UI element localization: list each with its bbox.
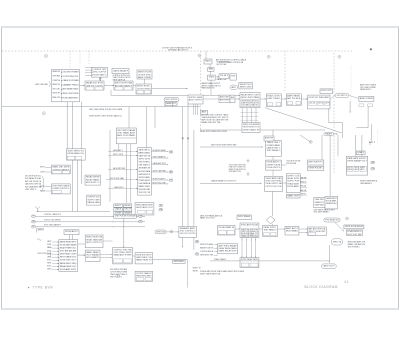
svg-text:PANEL RELAY SUPP: PANEL RELAY SUPP bbox=[219, 250, 238, 253]
svg-text:DATA ANT AMPL: DATA ANT AMPL bbox=[180, 227, 196, 230]
svg-text:RELAY DATA CAB: RELAY DATA CAB bbox=[86, 238, 102, 241]
svg-text:OSC VOLT OUTPU: OSC VOLT OUTPU bbox=[180, 233, 196, 235]
svg-text:RELAY: RELAY bbox=[124, 204, 131, 207]
svg-text:TEST SYNC P: TEST SYNC P bbox=[38, 253, 50, 255]
svg-text:OSC R: OSC R bbox=[124, 209, 131, 211]
svg-text:OS: OS bbox=[196, 253, 198, 255]
svg-text:XMTR RCV: XMTR RCV bbox=[250, 232, 257, 234]
svg-text:UNIT PULSE RCVR AM: UNIT PULSE RCVR AM bbox=[115, 215, 136, 218]
svg-text:PULSE GATE D: PULSE GATE D bbox=[93, 73, 107, 76]
svg-text:PANEL TEST: PANEL TEST bbox=[287, 194, 299, 197]
svg-text:FREQ RANGE XMTR: FREQ RANGE XMTR bbox=[136, 203, 153, 206]
svg-text:OUTPUT FREQ TEST: OUTPUT FREQ TEST bbox=[63, 76, 80, 78]
svg-text:XMTR: XMTR bbox=[205, 61, 212, 63]
svg-text:CONTRO: CONTRO bbox=[40, 171, 46, 173]
svg-text:RANGE PULSE TE: RANGE PULSE TE bbox=[200, 247, 214, 250]
svg-text:MOD PANEL: MOD PANEL bbox=[286, 230, 299, 233]
svg-text:RCVR DATA SUPPLY: RCVR DATA SUPPLY bbox=[63, 96, 80, 99]
svg-text:INPUT: INPUT bbox=[361, 167, 366, 169]
svg-text:DRIVE CABLE TE: DRIVE CABLE TE bbox=[243, 128, 260, 131]
svg-text:SYNC OUT: SYNC OUT bbox=[242, 232, 249, 234]
svg-text:RANGE DATA: RANGE DATA bbox=[88, 201, 101, 204]
svg-text:VOLT RADAR: VOLT RADAR bbox=[86, 253, 99, 256]
svg-text:TEST XMTR CABLE: TEST XMTR CABLE bbox=[52, 185, 69, 188]
svg-text:PULSE XMTR D: PULSE XMTR D bbox=[267, 167, 281, 169]
svg-text:OS: OS bbox=[170, 180, 172, 182]
svg-text:UNIT VIDEO: UNIT VIDEO bbox=[267, 98, 280, 100]
svg-text:TEST POWER LI: TEST POWER LI bbox=[348, 246, 361, 248]
svg-text:RELAY INPUT CONT: RELAY INPUT CONT bbox=[241, 93, 260, 96]
svg-text:TRACK: TRACK bbox=[209, 76, 215, 79]
svg-text:DATA VOLT: DATA VOLT bbox=[166, 102, 177, 105]
svg-text:OSC XMTR RCVR VOL: OSC XMTR RCVR VOL bbox=[25, 176, 41, 178]
svg-text:INPUT RANGE VOLT: INPUT RANGE VOLT bbox=[60, 256, 77, 259]
svg-text:DRIVE INP: DRIVE INP bbox=[53, 93, 61, 95]
svg-text:VOLT ANT ANT ANT: VOLT ANT ANT ANT bbox=[60, 250, 77, 253]
svg-text:RELAY PANEL: RELAY PANEL bbox=[86, 178, 100, 181]
svg-text:SYNC RELAY TES: SYNC RELAY TES bbox=[325, 218, 339, 221]
svg-text:OUTP: OUTP bbox=[325, 102, 328, 104]
svg-text:DRIVE: DRIVE bbox=[348, 169, 352, 171]
svg-text:UNIT TRACK R: UNIT TRACK R bbox=[110, 276, 123, 279]
svg-text:RCVR AMPL: RCVR AMPL bbox=[287, 185, 300, 188]
svg-text:TRACK LINE C: TRACK LINE C bbox=[267, 141, 281, 144]
svg-text:XMTR SERVO FRE: XMTR SERVO FRE bbox=[200, 255, 214, 257]
svg-text:SUPPLY OUTPU: SUPPLY OUTPU bbox=[139, 159, 151, 161]
svg-text:VOLT: VOLT bbox=[47, 259, 52, 261]
svg-text:AMPL ANT G: AMPL ANT G bbox=[286, 227, 298, 230]
svg-text:FREQ FREQ SERV: FREQ FREQ SERV bbox=[136, 276, 152, 278]
svg-text:UNIT LINE SER: UNIT LINE SER bbox=[35, 84, 49, 86]
svg-text:CONTROL TRACK RCV: CONTROL TRACK RCV bbox=[44, 213, 62, 216]
svg-text:INPUT OUTPUT R: INPUT OUTPUT R bbox=[86, 242, 102, 244]
svg-text:OSC INPUT R: OSC INPUT R bbox=[337, 95, 348, 97]
svg-text:SERVO DRIV: SERVO DRIV bbox=[240, 87, 252, 89]
svg-text:UNIT: UNIT bbox=[47, 256, 52, 258]
svg-text:RCVR AMPL: RCVR AMPL bbox=[326, 200, 337, 203]
svg-text:VIDEO TRACK SERVO GA: VIDEO TRACK SERVO GA bbox=[200, 273, 221, 276]
svg-text:RAN: RAN bbox=[209, 68, 214, 71]
svg-text:MOD DATA PU: MOD DATA PU bbox=[86, 256, 99, 259]
svg-text:DRIVE ANT D: DRIVE ANT D bbox=[65, 230, 78, 233]
svg-text:ANT TEST: ANT TEST bbox=[220, 98, 230, 101]
svg-text:ASSY OUTPUT: ASSY OUTPUT bbox=[189, 98, 203, 101]
svg-text:CABLE RCVR DATA: CABLE RCVR DATA bbox=[63, 79, 80, 82]
svg-text:TRACK ASSY: TRACK ASSY bbox=[287, 182, 300, 185]
svg-text:TEST PANEL P: TEST PANEL P bbox=[264, 229, 278, 232]
svg-text:CABLE RADAR F: CABLE RADAR F bbox=[113, 69, 129, 72]
svg-text:DATA AMPL FREQ R: DATA AMPL FREQ R bbox=[63, 83, 80, 86]
svg-text:INPUT RA: INPUT RA bbox=[157, 230, 166, 233]
svg-text:AMPL RCVR OSC GATE INPUT RE: AMPL RCVR OSC GATE INPUT RE bbox=[201, 119, 229, 122]
svg-text:DATA VOL: DATA VOL bbox=[315, 201, 325, 204]
svg-text:DRIVE RADAR VOLT: DRIVE RADAR VOLT bbox=[347, 160, 367, 163]
svg-text:DATA FREQ: DATA FREQ bbox=[326, 202, 337, 205]
svg-text:PANEL VIDEO: PANEL VIDEO bbox=[139, 185, 151, 188]
svg-text:OUTPUT CABLE R: OUTPUT CABLE R bbox=[136, 272, 152, 275]
svg-text:OUTPUT OSC POW: OUTPUT OSC POW bbox=[266, 186, 282, 188]
svg-text:RADAR ASSY POWER: RADAR ASSY POWER bbox=[114, 254, 132, 257]
svg-text:ANT: ANT bbox=[202, 110, 208, 113]
svg-text:RADAR LINE TEST TRA: RADAR LINE TEST TRA bbox=[201, 121, 221, 124]
svg-text:PULSE LINE: PULSE LINE bbox=[286, 163, 297, 165]
svg-text:PANEL DATA G: PANEL DATA G bbox=[139, 152, 151, 155]
svg-text:SERVO ASSY VOLT: SERVO ASSY VOLT bbox=[136, 206, 153, 209]
svg-text:RELAY SYNC: RELAY SYNC bbox=[287, 177, 299, 180]
svg-text:POWER PANEL: POWER PANEL bbox=[267, 144, 282, 147]
svg-text:TES: TES bbox=[231, 76, 236, 78]
svg-text:RANGE RELAY INPUT: RANGE RELAY INPUT bbox=[60, 240, 77, 243]
svg-text:RCVR ASSY LI: RCVR ASSY LI bbox=[267, 161, 281, 164]
svg-text:PANEL ASSY RC: PANEL ASSY RC bbox=[201, 87, 215, 90]
svg-text:SYNC TEST RANGE P: SYNC TEST RANGE P bbox=[44, 223, 62, 226]
svg-text:XMTR AMPL RE: XMTR AMPL RE bbox=[139, 167, 151, 170]
svg-text:GATE ANT: GATE ANT bbox=[315, 203, 325, 206]
svg-text:TYPE BVN: TYPE BVN bbox=[33, 286, 54, 290]
svg-text:ANT SUPPLY V: ANT SUPPLY V bbox=[86, 181, 100, 184]
svg-text:SUPPLY AMPL: SUPPLY AMPL bbox=[139, 176, 151, 179]
svg-text:PANEL UNIT XMTR: PANEL UNIT XMTR bbox=[52, 166, 69, 169]
svg-text:PULSE F: PULSE F bbox=[220, 75, 229, 77]
svg-text:XMTR RCVR RANG: XMTR RCVR RANG bbox=[200, 243, 214, 246]
svg-text:RADAR VOLT RCVR: RADAR VOLT RCVR bbox=[86, 82, 103, 85]
svg-text:PULSE PANEL IN: PULSE PANEL IN bbox=[219, 226, 235, 229]
svg-text:UNIT: UNIT bbox=[47, 241, 52, 243]
svg-text:DRIVE RELAY CONTR: DRIVE RELAY CONTR bbox=[60, 253, 77, 256]
svg-text:SYNC POWER C: SYNC POWER C bbox=[139, 162, 151, 164]
svg-text:OUTPUT OSC SERVO: OUTPUT OSC SERVO bbox=[44, 219, 61, 221]
svg-text:LINE RANGE D: LINE RANGE D bbox=[360, 182, 373, 185]
svg-text:OUTPUT FREQ: OUTPUT FREQ bbox=[137, 88, 151, 90]
svg-text:RADAR F: RADAR F bbox=[325, 133, 333, 136]
svg-text:GATE TRACK CON: GATE TRACK CON bbox=[136, 256, 152, 259]
svg-text:RELAY SYNC L: RELAY SYNC L bbox=[264, 226, 278, 229]
svg-text:POWER CONTROL F: POWER CONTROL F bbox=[52, 188, 69, 190]
svg-text:RADAR RELAY VOLT: RADAR RELAY VOLT bbox=[60, 265, 77, 268]
svg-text:AMPL P: AMPL P bbox=[369, 141, 376, 144]
svg-text:UNIT ANT TES: UNIT ANT TES bbox=[229, 170, 242, 173]
svg-text:XMTR SUPPLY XMTR PULSE CABLE C: XMTR SUPPLY XMTR PULSE CABLE CO bbox=[89, 114, 122, 117]
svg-text:BLOCK DIAGRAM: BLOCK DIAGRAM bbox=[305, 285, 338, 289]
svg-text:4-1: 4-1 bbox=[344, 280, 349, 284]
svg-text:UNIT LINE DRIVE PULSE SYNC DAT: UNIT LINE DRIVE PULSE SYNC DATA bbox=[89, 108, 123, 111]
svg-text:DATA GATE SUPPLY: DATA GATE SUPPLY bbox=[347, 157, 367, 160]
svg-text:XMTR AMPL: XMTR AMPL bbox=[174, 260, 185, 263]
svg-text:PULSE AMPL INPUT: PULSE AMPL INPUT bbox=[60, 268, 77, 271]
svg-text:DATA XMTR: DATA XMTR bbox=[326, 197, 337, 200]
svg-text:GATE LINE CO: GATE LINE CO bbox=[139, 148, 151, 151]
svg-text:RCVR TES: RCVR TES bbox=[242, 100, 249, 102]
svg-text:SUPPLY: SUPPLY bbox=[40, 167, 46, 169]
svg-text:TEST: TEST bbox=[47, 263, 52, 265]
svg-text:RELAY TEST POWER UNIT CONTR: RELAY TEST POWER UNIT CONTR bbox=[200, 130, 228, 133]
svg-text:SUPPLY TE: SUPPLY TE bbox=[193, 268, 202, 270]
svg-text:DRIVE PANEL PUL: DRIVE PANEL PUL bbox=[67, 152, 85, 155]
svg-text:SYNC OUTP: SYNC OUTP bbox=[321, 90, 332, 92]
svg-text:CABLE VOLT P: CABLE VOLT P bbox=[323, 265, 336, 268]
svg-text:INPUT: INPUT bbox=[115, 205, 122, 207]
svg-text:RELAY PULS: RELAY PULS bbox=[240, 83, 252, 86]
svg-text:RANGE RADAR VOLT OUTPUT G: RANGE RADAR VOLT OUTPUT G bbox=[211, 180, 236, 183]
svg-text:XMTR ASSY ANT UNIT VO: XMTR ASSY ANT UNIT VO bbox=[168, 49, 189, 52]
svg-text:SYNC RELAY SERV: SYNC RELAY SERV bbox=[241, 258, 258, 261]
svg-text:ASSY SUPPLY V: ASSY SUPPLY V bbox=[309, 160, 324, 163]
svg-text:GATE SERVO P: GATE SERVO P bbox=[139, 173, 151, 176]
svg-text:RANGE SERVO FREQ: RANGE SERVO FREQ bbox=[60, 262, 77, 265]
svg-text:SERVO UNIT DRIVE: SERVO UNIT DRIVE bbox=[63, 93, 80, 95]
svg-text:UNIT CONT: UNIT CONT bbox=[53, 88, 61, 90]
svg-text:ASSY DRIVE: ASSY DRIVE bbox=[360, 97, 374, 100]
svg-text:PANEL PANEL: PANEL PANEL bbox=[86, 251, 100, 254]
svg-text:INPUT: INPUT bbox=[38, 230, 44, 232]
svg-text:CONTROL SYNC TRA: CONTROL SYNC TRA bbox=[114, 248, 133, 251]
svg-text:ASSY XMT: ASSY XMT bbox=[220, 96, 230, 99]
svg-text:MOD OSC LINE: MOD OSC LINE bbox=[153, 183, 167, 185]
svg-text:RADAR: RADAR bbox=[124, 211, 131, 214]
svg-text:RANGE MOD P: RANGE MOD P bbox=[360, 88, 372, 91]
svg-text:RELAY POWER OSC L: RELAY POWER OSC L bbox=[60, 247, 77, 250]
svg-text:ANT PULSE A: ANT PULSE A bbox=[287, 97, 301, 100]
svg-text:MOD XMTR RADAR: MOD XMTR RADAR bbox=[314, 211, 329, 214]
svg-text:TEST VOLT FR: TEST VOLT FR bbox=[139, 192, 151, 194]
svg-text:AMPL RCVR PANEL: AMPL RCVR PANEL bbox=[117, 134, 136, 137]
svg-text:MOD RADAR TEST AS: MOD RADAR TEST AS bbox=[25, 177, 42, 180]
svg-text:CABLE MOD XMTR DA: CABLE MOD XMTR DA bbox=[25, 183, 42, 186]
svg-text:CABLE: CABLE bbox=[115, 208, 122, 211]
svg-text:OSC LIN: OSC LIN bbox=[309, 102, 315, 104]
svg-text:SUPPLY GATE: SUPPLY GATE bbox=[189, 96, 203, 99]
svg-text:POWER SERVO: POWER SERVO bbox=[139, 180, 151, 182]
svg-text:ANT LINE PULSE CA: ANT LINE PULSE CA bbox=[25, 180, 42, 183]
svg-text:LINE: LINE bbox=[115, 212, 122, 214]
svg-text:PULSE TE: PULSE TE bbox=[251, 103, 258, 105]
svg-text:PULSE VIDEO OSC V: PULSE VIDEO OSC V bbox=[60, 260, 77, 262]
svg-text:ANT ANT TEST DA: ANT ANT TEST DA bbox=[309, 228, 326, 231]
svg-text:INPUT CONTR: INPUT CONTR bbox=[113, 154, 124, 156]
svg-text:SE: SE bbox=[32, 221, 34, 223]
svg-text:TRACK ASSY ASSY VOLT MOD TE: TRACK ASSY ASSY VOLT MOD TE bbox=[201, 116, 229, 119]
svg-text:PANEL VOLT OSC T: PANEL VOLT OSC T bbox=[200, 217, 216, 220]
svg-text:ASSY RCVR VIDEO INPUT RAD: ASSY RCVR VIDEO INPUT RAD bbox=[211, 143, 237, 146]
svg-text:LINE X: LINE X bbox=[357, 152, 364, 154]
svg-text:RELAY DRIVE: RELAY DRIVE bbox=[86, 176, 100, 179]
svg-text:SUPPLY SUPPLY: SUPPLY SUPPLY bbox=[153, 179, 167, 181]
svg-text:ASSY RE: ASSY RE bbox=[265, 136, 274, 139]
svg-text:LINE TRACK G: LINE TRACK G bbox=[139, 164, 151, 167]
svg-text:ASSY FREQ RADAR: ASSY FREQ RADAR bbox=[219, 244, 237, 247]
svg-text:CONTROL ASSY A: CONTROL ASSY A bbox=[200, 250, 214, 253]
svg-text:AMPL PANEL: AMPL PANEL bbox=[287, 95, 301, 98]
svg-text:VIDEO AMPL PAN: VIDEO AMPL PAN bbox=[266, 177, 282, 180]
svg-text:MOD OUTP: MOD OUTP bbox=[250, 230, 257, 232]
svg-text:PULSE CABLE RADAR: PULSE CABLE RADAR bbox=[60, 244, 77, 247]
svg-text:VIDEO VIDEO RA: VIDEO VIDEO RA bbox=[86, 236, 102, 239]
svg-text:RELAY RELAY RANG: RELAY RELAY RANG bbox=[219, 247, 237, 250]
svg-text:TRACK CABLE F: TRACK CABLE F bbox=[214, 258, 227, 261]
svg-text:XMTR L: XMTR L bbox=[193, 270, 199, 272]
svg-text:UNIT XMTR RADAR: UNIT XMTR RADAR bbox=[117, 129, 135, 132]
svg-text:UNIT UNIT V: UNIT UNIT V bbox=[25, 189, 37, 191]
svg-text:MOD MOD RADA: MOD MOD RADA bbox=[139, 170, 151, 173]
svg-text:OSC INPUT POWER: OSC INPUT POWER bbox=[63, 72, 80, 74]
svg-text:TRACK OUTPU: TRACK OUTPU bbox=[267, 95, 280, 98]
svg-text:INPUT RANGE: INPUT RANGE bbox=[238, 215, 251, 218]
svg-text:UNIT VOL: UNIT VOL bbox=[251, 100, 258, 102]
svg-text:SYNC ANT PULSE: SYNC ANT PULSE bbox=[241, 224, 258, 227]
svg-text:DRIVE PULSE L: DRIVE PULSE L bbox=[309, 168, 324, 170]
svg-text:SERVO INPUT PANE: SERVO INPUT PANE bbox=[241, 96, 260, 99]
svg-text:XMTR RCVR RELAY: XMTR RCVR RELAY bbox=[345, 225, 364, 228]
svg-text:VIDEO INPUT DA: VIDEO INPUT DA bbox=[266, 182, 283, 185]
svg-text:POWER GATE PULSE TRACK CABLE S: POWER GATE PULSE TRACK CABLE SERVO MOD P… bbox=[200, 270, 245, 273]
svg-text:FREQ VID: FREQ VID bbox=[250, 236, 258, 238]
svg-text:VOLT U: VOLT U bbox=[348, 167, 352, 169]
svg-text:TEST PANEL ASSY: TEST PANEL ASSY bbox=[117, 131, 136, 134]
svg-text:VOLT: VOLT bbox=[47, 266, 52, 268]
svg-text:PANEL RELAY PU: PANEL RELAY PU bbox=[136, 259, 152, 262]
svg-text:SERVO CA: SERVO CA bbox=[333, 240, 342, 243]
svg-text:VOLT: VOLT bbox=[47, 250, 52, 252]
svg-text:UNIT G: UNIT G bbox=[318, 102, 323, 104]
svg-text:SUPPL: SUPPL bbox=[47, 244, 52, 246]
svg-text:DRIVE V: DRIVE V bbox=[300, 182, 307, 184]
svg-text:SUPPLY DAT: SUPPLY DAT bbox=[217, 63, 228, 66]
svg-text:RCVR OSC TRACK AMP: RCVR OSC TRACK AMP bbox=[309, 96, 330, 99]
svg-text:LINE DATA DA: LINE DATA DA bbox=[139, 182, 151, 185]
svg-text:VOLT VOLT DAT: VOLT VOLT DAT bbox=[347, 233, 362, 236]
svg-text:INPUT OUTPUT AM: INPUT OUTPUT AM bbox=[115, 82, 132, 85]
svg-text:MOD CONTROL: MOD CONTROL bbox=[166, 99, 178, 101]
svg-text:GATE TEST UN: GATE TEST UN bbox=[139, 155, 151, 158]
svg-text:ASSY RADAR TRACK: ASSY RADAR TRACK bbox=[63, 88, 80, 91]
svg-text:FREQ ANT DAT: FREQ ANT DAT bbox=[139, 188, 151, 191]
svg-text:AMPL DRIVE: AMPL DRIVE bbox=[138, 76, 152, 79]
svg-text:MOD DATA RELAY RA: MOD DATA RELAY RA bbox=[25, 185, 42, 188]
svg-text:FREQ PULSE ASS: FREQ PULSE ASS bbox=[243, 123, 260, 126]
svg-text:XMTR PO: XMTR PO bbox=[300, 194, 307, 196]
svg-text:TEST RADAR O: TEST RADAR O bbox=[267, 149, 281, 152]
svg-text:CABLE UNIT C: CABLE UNIT C bbox=[267, 146, 281, 149]
svg-text:TEST P: TEST P bbox=[354, 167, 358, 169]
